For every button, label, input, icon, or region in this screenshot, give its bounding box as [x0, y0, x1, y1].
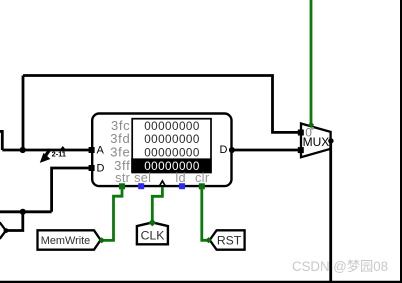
- wire left stub entering from left edge toward A wire: [0, 131, 2, 150]
- tunnel RST: [210, 230, 245, 249]
- node junction dot on bottom-left bus: [20, 209, 26, 215]
- svg-text:00000000: 00000000: [144, 160, 200, 173]
- MUX input 0 pin square: [298, 130, 304, 136]
- svg-text:CSDN @梦园08: CSDN @梦园08: [292, 259, 388, 274]
- node green wire end blob at RST tip: [206, 237, 212, 243]
- svg-text:00000000: 00000000: [144, 120, 200, 133]
- RAM memory contents box: [132, 119, 211, 173]
- wire address bus into RAM pin A: [2, 149, 90, 152]
- RAM port clr pin square (green, driven 0): [199, 183, 205, 189]
- svg-text:CLK: CLK: [141, 228, 165, 242]
- wire MUX output down to bottom edge: [329, 141, 332, 283]
- RAM port str pin square (green, driven 0): [119, 183, 125, 189]
- RAM register file body: [92, 114, 231, 187]
- MUX select tick mark: [311, 127, 314, 130]
- svg-text:str: str: [115, 170, 131, 185]
- RAM port ld pin square (blue, floating): [179, 183, 185, 189]
- RAM clock input triangle: [160, 181, 166, 186]
- wire green select line from top edge to MUX: [310, 0, 313, 125]
- wire vertical from top bus down to A-wire junction: [22, 76, 25, 151]
- svg-text:RST: RST: [217, 233, 242, 247]
- splitter 2-11 on address wire: [40, 146, 66, 163]
- RAM pin A square: [89, 147, 95, 153]
- node green wire end blob at CLK peak: [149, 219, 157, 227]
- RAM pin D-in square: [89, 165, 95, 171]
- svg-text:MUX: MUX: [303, 135, 330, 149]
- wire RAM D-out to MUX input 1: [232, 149, 299, 152]
- svg-text:D: D: [220, 144, 228, 156]
- svg-text:MemWrite: MemWrite: [41, 235, 90, 247]
- RAM highlighted row 3ff: [131, 158, 211, 172]
- svg-text:A: A: [97, 144, 105, 156]
- svg-text:2-11: 2-11: [52, 150, 66, 159]
- svg-text:D: D: [97, 162, 105, 174]
- svg-text:00000000: 00000000: [144, 133, 200, 146]
- MUX output pin dot: [328, 138, 333, 143]
- wire branch down to cut-off tunnel: [8, 212, 23, 231]
- node junction dot on A wire: [20, 147, 26, 153]
- wire green from clock pin to CLK tunnel: [152, 187, 162, 222]
- svg-text:00000000: 00000000: [144, 147, 200, 160]
- tunnel CLK: [137, 222, 168, 244]
- node green wire end blob at MUX select: [308, 122, 314, 128]
- MUX input 1 pin square: [298, 147, 304, 153]
- wire top bus from node A to MUX input 0: [23, 76, 299, 133]
- node green wire end blob at MemWrite tip: [99, 237, 105, 243]
- wire green from str pin to MemWrite tunnel: [103, 187, 123, 241]
- svg-text:ld: ld: [175, 170, 186, 185]
- tunnel MemWrite: [38, 230, 101, 249]
- svg-text:sel: sel: [134, 170, 151, 185]
- wire horizontal bus exiting left edge at bottom: [0, 210, 52, 213]
- svg-text:clr: clr: [195, 170, 210, 185]
- wire green from clr pin to RST tunnel: [202, 187, 208, 241]
- RAM port sel pin square (blue, floating): [138, 183, 144, 189]
- op-amp shaped multiplexer MUX: [301, 124, 331, 158]
- tunnel (cut off at left edge): [0, 223, 6, 238]
- wire RAM D-in wire going left then down: [52, 168, 90, 212]
- RAM pin D-out dot: [229, 147, 235, 153]
